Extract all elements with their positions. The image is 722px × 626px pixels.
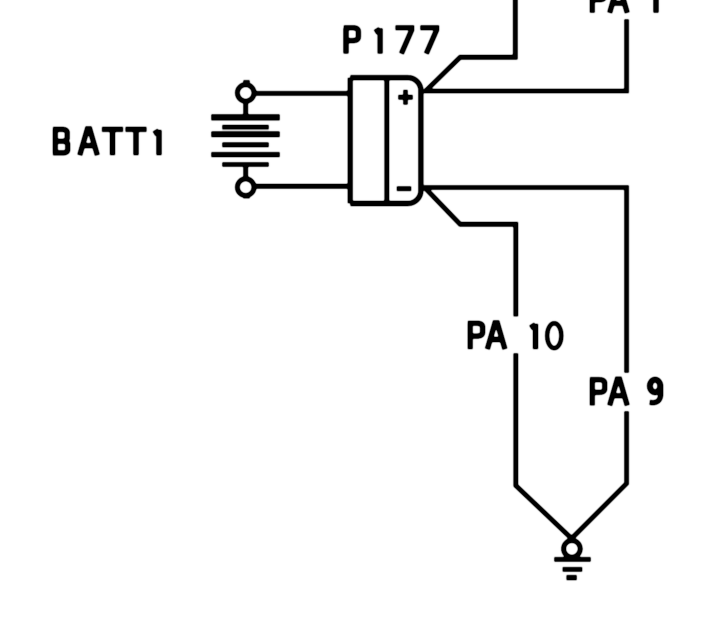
wire battery minus to connector — [253, 184, 350, 189]
wire PA 10 to ground — [516, 353, 572, 539]
connector pin minus mark — [397, 186, 412, 191]
connector P177 label — [344, 28, 440, 54]
connector pin plus mark — [398, 90, 413, 105]
wire plus pin to top edge — [426, 0, 516, 91]
connector P177 body — [350, 78, 421, 204]
wire minus pin to PA 10 — [426, 189, 516, 317]
node PA 9 label — [590, 379, 661, 406]
wire PA 9 to ground — [572, 411, 627, 538]
wire plus pin to PA 1 — [424, 19, 627, 91]
battery BATT1 label — [53, 129, 159, 156]
wire minus pin to PA 9 — [424, 188, 627, 374]
wire battery plus to connector — [253, 91, 350, 96]
ground — [554, 541, 591, 578]
node PA 10 label — [468, 323, 562, 350]
battery BATT1 — [211, 81, 280, 197]
node PA 1 label — [590, 0, 656, 13]
